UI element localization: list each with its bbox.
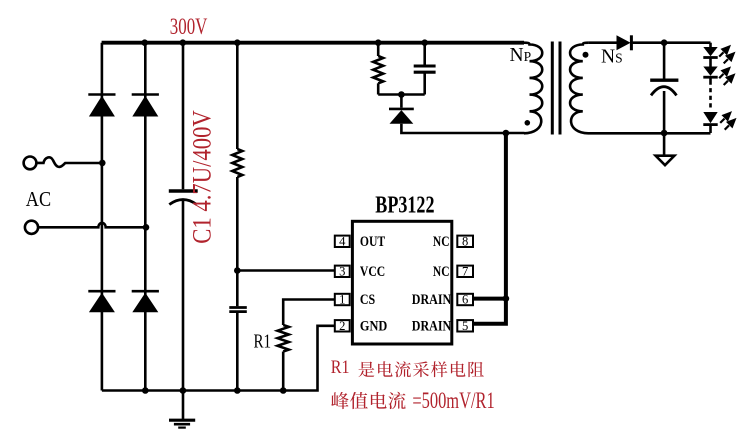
- svg-text:BP3122: BP3122: [375, 192, 434, 219]
- svg-text:R1: R1: [331, 357, 350, 378]
- svg-text:1: 1: [339, 293, 345, 307]
- svg-text:=500mV/R1: =500mV/R1: [412, 388, 494, 413]
- svg-text:2: 2: [339, 319, 345, 333]
- svg-text:8: 8: [462, 235, 468, 249]
- svg-text:NS: NS: [601, 46, 623, 67]
- svg-text:AC: AC: [26, 187, 51, 211]
- svg-text:3: 3: [339, 265, 345, 279]
- svg-text:7: 7: [462, 265, 468, 279]
- svg-text:OUT: OUT: [360, 234, 386, 250]
- svg-text:4: 4: [339, 235, 346, 249]
- svg-text:5: 5: [462, 319, 468, 333]
- svg-text:VCC: VCC: [360, 264, 385, 280]
- svg-text:6: 6: [462, 293, 468, 307]
- svg-text:NC: NC: [433, 264, 450, 280]
- svg-text:R1: R1: [254, 331, 272, 353]
- svg-text:C1 4.7U/400V: C1 4.7U/400V: [188, 110, 217, 244]
- svg-text:DRAIN: DRAIN: [412, 292, 452, 308]
- svg-text:CS: CS: [360, 292, 375, 308]
- svg-text:GND: GND: [360, 318, 387, 334]
- svg-text:300V: 300V: [170, 14, 208, 40]
- svg-text:DRAIN: DRAIN: [412, 318, 452, 334]
- svg-text:NC: NC: [433, 234, 450, 250]
- svg-text:NP: NP: [510, 45, 532, 66]
